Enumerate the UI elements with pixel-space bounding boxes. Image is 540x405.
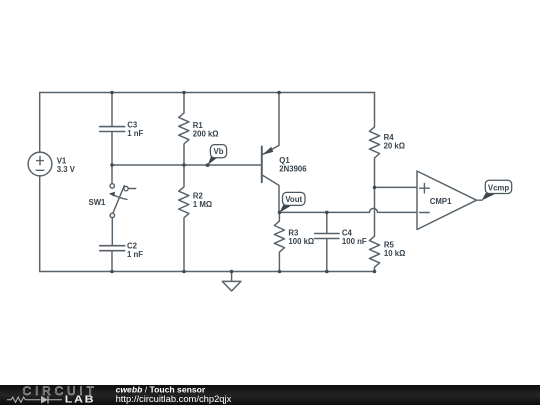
svg-text:LAB: LAB [65, 395, 95, 405]
svg-text:2N3906: 2N3906 [279, 165, 307, 174]
svg-text:3.3 V: 3.3 V [57, 165, 76, 174]
svg-text:100 kΩ: 100 kΩ [288, 237, 314, 246]
svg-text:10 kΩ: 10 kΩ [384, 249, 405, 258]
svg-text:20 kΩ: 20 kΩ [384, 142, 405, 151]
svg-text:Vout: Vout [285, 195, 302, 204]
svg-text:Vcmp: Vcmp [488, 184, 509, 193]
svg-text:1 nF: 1 nF [127, 250, 143, 259]
svg-text:Vb: Vb [214, 147, 224, 156]
svg-text:CMP1: CMP1 [430, 197, 452, 206]
svg-text:http://circuitlab.com/chp2qjx: http://circuitlab.com/chp2qjx [116, 393, 232, 404]
svg-text:1 nF: 1 nF [127, 129, 143, 138]
svg-text:200 kΩ: 200 kΩ [193, 129, 219, 138]
svg-text:100 nF: 100 nF [342, 237, 367, 246]
svg-text:SW1: SW1 [89, 198, 107, 207]
svg-text:1 MΩ: 1 MΩ [193, 200, 212, 209]
